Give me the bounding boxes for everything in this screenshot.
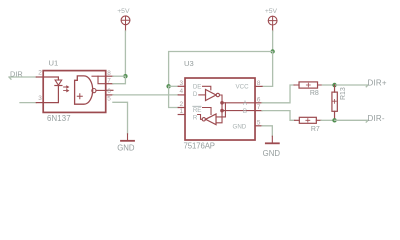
wire U3 pin B to R7 [262,111,295,121]
VCC internal line pin 8 [92,75,106,77]
wire DIR to U1 pin 2 [9,77,36,79]
internal net receiver top input [216,103,225,117]
pin 6 stub [106,89,113,91]
svg-text:+5V: +5V [265,8,278,15]
LED emission arrows [64,86,69,88]
svg-text:6: 6 [107,88,111,95]
svg-text:GND: GND [117,144,135,153]
op-amp U1 optocoupler 6N137 [36,71,113,113]
wire +5V left to U1 pin 8 node [124,31,126,76]
svg-text:2: 2 [180,101,184,108]
junction dot node DE [166,84,170,88]
junction dot node VCC1 [123,74,127,78]
wire node to DIR+ label [335,85,369,87]
pin 1 stub R [178,114,185,116]
pin 2 stub RE [178,107,185,109]
junction dot node DIR- [332,118,336,122]
gate plus sign [77,94,82,99]
gate output bubble [92,89,96,93]
svg-text:VCC: VCC [236,84,250,91]
svg-text:4: 4 [180,88,184,95]
svg-text:3: 3 [180,80,184,87]
wire U1 pin 5 to GND [113,102,128,134]
ground GND left [117,134,135,153]
pin 3 stub DE [178,85,185,87]
driver triangle inside U3 [206,90,217,101]
wire DE node down to U3 pin 2 RE [169,86,179,107]
wire to U1 pin 3 [20,102,36,104]
gate output line to pin 6 [96,89,106,91]
wire U1 pin 7 up to +5V node [113,76,126,84]
pin 3 stub [36,102,43,104]
wire node to DIR- label [335,120,369,122]
junction dot node DIR+ [332,83,336,87]
resistor R7 [295,117,321,133]
svg-text:+5V: +5V [117,8,130,15]
svg-text:8: 8 [107,70,111,77]
receiver triangle inside U3 [206,114,217,125]
wire DE node to U3 pin 3 [169,85,179,87]
svg-text:RE: RE [193,107,202,114]
svg-text:R: R [193,115,198,122]
wire U1 pin 6 to U3 pin D [113,94,178,96]
pin 4 stub D [178,94,185,96]
svg-text:GND: GND [233,123,247,130]
pin 7 stub B [255,110,262,112]
ground GND right [263,136,281,158]
wire R7 to node DIR- [321,119,335,121]
svg-text:6: 6 [257,96,261,103]
internal net A line [222,102,255,104]
D internal line [199,94,206,96]
svg-text:GND: GND [263,149,281,158]
svg-text:R7: R7 [311,126,320,133]
pin 6 stub A [255,102,262,104]
receiver output bubble [202,118,205,121]
wire node VCC2 across to DE riser [169,52,273,87]
internal net driver to receiver [216,95,222,123]
pin 5 stub [106,94,113,96]
svg-text:A: A [243,100,248,107]
internal junction dot A [220,101,224,105]
internal net B line [222,110,255,112]
VE internal line pin 7 [98,76,106,84]
pin 8 stub [106,75,113,77]
wire +5V right down to node [272,31,274,52]
junction dot node VCC2 [270,49,274,53]
pin 5 stub GND [255,125,262,127]
svg-text:75176AP: 75176AP [184,142,215,151]
svg-text:6N137: 6N137 [47,114,71,123]
svg-text:D: D [193,91,198,98]
svg-text:R8: R8 [310,90,319,97]
svg-text:1: 1 [180,108,184,115]
svg-text:U1: U1 [49,58,59,67]
svg-text:DIR-: DIR- [368,114,385,123]
supply +5V left [117,8,130,31]
pin 8 stub VCC [255,85,262,87]
internal junction dot B [220,109,224,113]
svg-text:U3: U3 [184,59,194,68]
wire R8 to node DIR+ [322,84,334,86]
LED D1 inside U1 [43,77,58,80]
U1 box [43,71,106,113]
svg-text:R13: R13 [340,87,347,100]
svg-text:2: 2 [38,70,42,77]
wire U1 pin 8 to +5V node [113,75,126,77]
R internal line [198,115,203,120]
transceiver U3 75176AP [178,78,262,140]
svg-text:7: 7 [107,77,111,84]
wire U3 pin GND down [262,126,272,136]
U3 box [185,78,255,140]
svg-text:8: 8 [257,80,261,87]
resistor R13 [332,85,347,120]
svg-text:5: 5 [257,119,261,126]
svg-text:DE: DE [193,84,202,91]
pin 7 stub [106,83,113,85]
wire U3 VCC pin to node VCC2 [262,52,273,87]
driver output bubble [216,93,219,96]
svg-text:5: 5 [107,95,111,102]
wire U3 pin A to R8 [262,85,294,103]
RE internal line [203,108,212,115]
DE internal line [203,86,211,90]
svg-text:B: B [243,108,247,115]
svg-text:3: 3 [38,95,42,102]
svg-text:7: 7 [257,104,261,111]
supply +5V right [265,8,278,31]
svg-text:DIR+: DIR+ [368,79,387,88]
resistor R8 [294,82,322,97]
pin 2 stub [36,76,43,78]
gate inside U1 [75,76,93,104]
